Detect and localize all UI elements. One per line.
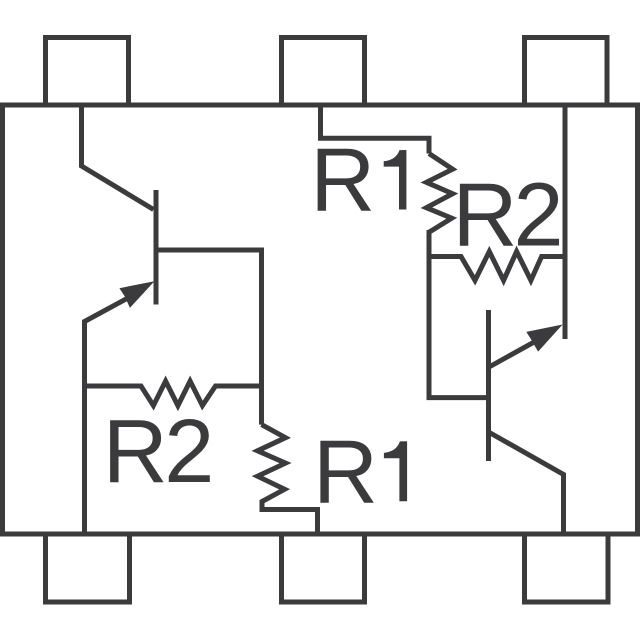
pin 5 pad (bottom-middle) [282, 534, 365, 602]
svg-text:R: R [313, 422, 378, 522]
resistor R2 (right) zigzag [429, 252, 565, 281]
pin 1 pad (top-left) [46, 38, 129, 106]
resistor R1 (right) zigzag [426, 154, 452, 233]
wire: Q1 base to node [158, 250, 262, 425]
wire: R1 bottom to Q2 base [429, 230, 489, 398]
transistor Q1 base bar [154, 190, 159, 305]
resistor R1 (left) zigzag [258, 425, 318, 536]
svg-text:R2: R2 [453, 166, 560, 266]
wire: top-left pin to Q1 collector [82, 105, 154, 210]
wire: top-right pin down to Q2 emitter [563, 105, 568, 339]
Q2 emitter arrow (NPN, pointing out) [526, 325, 562, 352]
pin 6 pad (bottom-left) [46, 534, 130, 602]
pin 4 pad (bottom-right) [525, 534, 609, 602]
wire: Q1 emitter diagonal and vertical to bottom-left pin [85, 296, 132, 536]
Q1 emitter arrow (PNP, pointing at base) [119, 281, 154, 308]
pin 2 pad (top-middle) [282, 38, 365, 106]
wire: Q2 collector to bottom-right pin [489, 432, 564, 536]
wire: top-middle pin to R1 right [321, 105, 430, 154]
package outline [3, 105, 638, 534]
svg-text:R: R [310, 131, 375, 231]
wire: Q2 emitter diagonal [490, 340, 537, 366]
resistor R2 (left) zigzag [85, 381, 262, 406]
pin 3 pad (top-right) [525, 38, 608, 106]
svg-text:R2: R2 [103, 402, 211, 502]
transistor Q2 base bar [486, 310, 491, 461]
